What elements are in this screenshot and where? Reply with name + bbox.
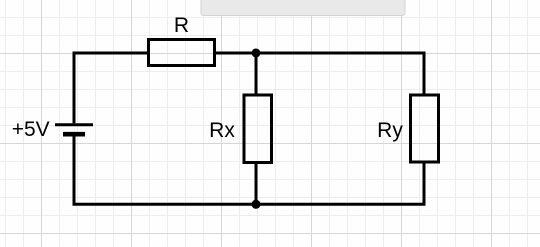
wire: R right side along top rail to Ry top <box>215 53 425 96</box>
wire: battery negative down, bottom rail to Ry bottom <box>74 137 424 205</box>
svg-text:R: R <box>174 14 189 37</box>
battery B1 short plate (-) <box>63 132 85 137</box>
junction node bottom (Rx / bottom rail) <box>252 200 261 209</box>
battery B1 long plate (+) <box>55 123 93 126</box>
wire: battery positive up and top-left corner to resistor R <box>74 53 148 123</box>
toolbar fragment (gray bar, cut off at top) <box>201 0 405 16</box>
resistor Ry (vertical box) <box>411 95 439 162</box>
svg-text:Rx: Rx <box>209 119 235 142</box>
wire: top junction down to Rx top <box>255 53 258 96</box>
svg-text:+5V: +5V <box>12 118 50 141</box>
resistor R (horizontal box) <box>149 40 215 66</box>
wire: Rx bottom to bottom rail <box>255 162 258 205</box>
resistor Rx (vertical box) <box>244 95 272 163</box>
junction node top (Rx / top rail) <box>252 49 261 58</box>
svg-text:Ry: Ry <box>377 119 403 142</box>
